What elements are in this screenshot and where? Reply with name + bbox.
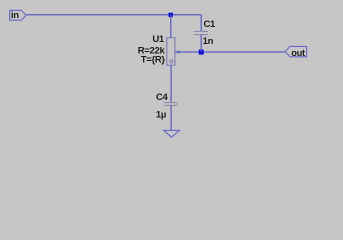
capacitor C4 bottom lead / wire to ground — [170, 105, 172, 130]
svg-text:T={R}: T={R} — [141, 55, 166, 66]
wire: junction down to U1 top — [170, 15, 172, 38]
svg-text:1n: 1n — [203, 36, 214, 47]
capacitor C4 bottom plate — [164, 104, 178, 106]
port flag "out" — [285, 46, 306, 57]
svg-text:C1: C1 — [204, 19, 217, 30]
wire: in port to C1 corner (top horizontal) — [26, 14, 201, 16]
svg-text:in: in — [11, 10, 19, 21]
svg-text:C4: C4 — [156, 92, 169, 103]
capacitor C1 bottom plate — [194, 34, 208, 36]
capacitor C4 top plate — [164, 102, 178, 104]
svg-text:1µ: 1µ — [156, 110, 166, 121]
capacitor C1 top plate — [194, 30, 208, 32]
node junction at U1 top — [169, 13, 173, 17]
wire: wiper to out port — [175, 51, 285, 53]
capacitor C1 bottom lead — [200, 35, 202, 52]
node junction below C1 — [199, 50, 204, 55]
potentiometer U1 body — [167, 38, 175, 65]
wire: U1 bottom to C4 — [170, 65, 172, 103]
port flag "in" — [10, 10, 26, 21]
svg-text:U1: U1 — [152, 34, 165, 45]
potentiometer U1 wiper arrowhead — [175, 50, 179, 54]
wire: corner down to C1 top plate — [200, 15, 202, 32]
ground symbol — [164, 130, 180, 137]
svg-text:out: out — [291, 48, 305, 58]
potentiometer U1 wiper dot — [170, 60, 173, 63]
